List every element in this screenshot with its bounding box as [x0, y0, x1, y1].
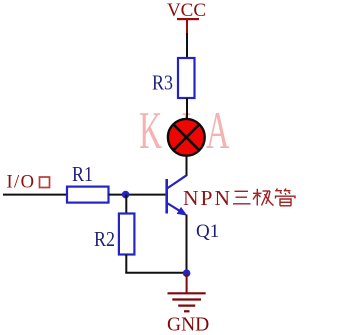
- svg-text:I/O: I/O: [7, 173, 36, 193]
- svg-text:GND: GND: [167, 315, 209, 335]
- svg-text:Q1: Q1: [196, 221, 219, 242]
- svg-text:R1: R1: [72, 162, 93, 186]
- svg-text:R3: R3: [152, 71, 173, 95]
- svg-text:R2: R2: [94, 227, 115, 251]
- svg-text:NPN: NPN: [183, 186, 232, 210]
- svg-text:A: A: [206, 102, 230, 160]
- svg-text:VCC: VCC: [167, 0, 206, 21]
- svg-text:K: K: [139, 102, 162, 160]
